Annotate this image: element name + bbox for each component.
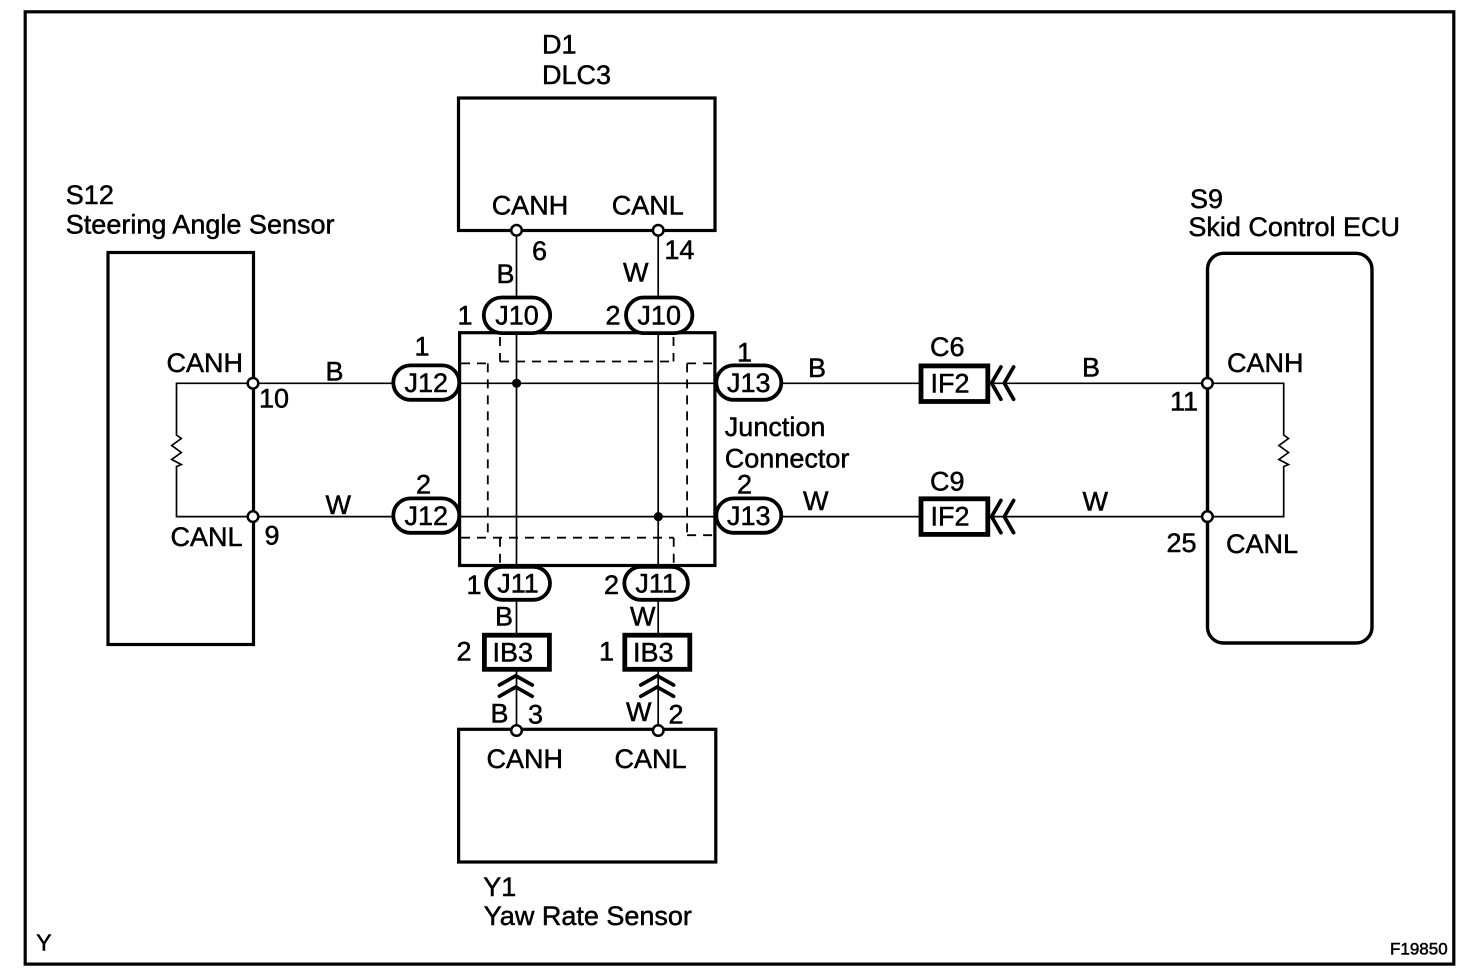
svg-text:W: W: [630, 602, 656, 632]
svg-text:D1: D1: [542, 29, 577, 59]
svg-text:B: B: [326, 356, 344, 386]
junction dot CANL: [654, 512, 663, 521]
connector C9 IF2 box: [921, 499, 988, 535]
terminal DLC3 pin14: [653, 225, 664, 236]
connector C6 IF2 box: [921, 366, 988, 402]
svg-text:Steering Angle Sensor: Steering Angle Sensor: [66, 209, 335, 239]
svg-text:J12: J12: [405, 501, 449, 531]
svg-text:Y1: Y1: [483, 872, 516, 902]
terminal S12 pin10: [248, 378, 259, 389]
S12 terminating resistor: [172, 435, 182, 467]
yaw rate sensor Y1 box: [459, 729, 716, 862]
junction dot CANH: [512, 379, 521, 388]
svg-text:9: 9: [265, 521, 280, 551]
terminal Y1 pin3: [511, 725, 522, 736]
svg-text:IF2: IF2: [931, 369, 970, 399]
svg-text:W: W: [803, 486, 829, 516]
svg-text:W: W: [326, 490, 352, 520]
svg-text:F19850: F19850: [1390, 940, 1448, 959]
svg-text:J13: J13: [727, 368, 771, 398]
svg-text:J13: J13: [727, 501, 771, 531]
svg-text:CANL: CANL: [1226, 529, 1298, 559]
connector pill J11 pin1: [486, 567, 550, 600]
steering angle sensor S12 box: [108, 253, 254, 645]
connector IB3 right chevrons: [641, 676, 674, 697]
svg-text:CANH: CANH: [167, 348, 244, 378]
svg-text:2: 2: [604, 570, 619, 600]
svg-text:J11: J11: [635, 569, 677, 599]
S12 internal wire CANH to resistor: [177, 383, 254, 435]
svg-text:S9: S9: [1190, 184, 1223, 214]
connector IB3 left box (pin2): [484, 635, 549, 669]
svg-text:J11: J11: [497, 569, 539, 599]
connector C6 chevrons: [992, 367, 1014, 399]
connector pill J12 pin2: [393, 498, 459, 532]
connector pill J12 pin1: [393, 365, 459, 399]
svg-text:J10: J10: [637, 301, 681, 331]
svg-text:2: 2: [669, 700, 684, 730]
svg-text:10: 10: [259, 384, 289, 414]
svg-text:C6: C6: [930, 332, 965, 362]
svg-text:B: B: [495, 602, 513, 632]
svg-text:IF2: IF2: [931, 502, 970, 532]
svg-text:J10: J10: [495, 301, 539, 331]
S9 terminating resistor: [1279, 435, 1289, 467]
svg-text:1: 1: [458, 301, 473, 331]
svg-text:J12: J12: [405, 368, 449, 398]
wire B CANH bus S12 pin10 to S9 pin11: [253, 382, 1207, 384]
svg-text:1: 1: [737, 338, 752, 368]
terminal S9 pin25: [1202, 511, 1213, 522]
svg-text:CANH: CANH: [1227, 348, 1304, 378]
connector pill J10 pin2: [626, 298, 692, 334]
junction connector box: [460, 333, 715, 566]
svg-text:DLC3: DLC3: [542, 60, 611, 90]
svg-text:11: 11: [1170, 387, 1198, 417]
svg-text:3: 3: [528, 700, 543, 730]
svg-text:Yaw Rate Sensor: Yaw Rate Sensor: [484, 901, 692, 931]
svg-text:14: 14: [664, 235, 694, 265]
svg-text:IB3: IB3: [493, 638, 534, 668]
wire B DLC3 pin6 down to Y1 pin3: [516, 230, 518, 730]
DLC3 D1 box: [459, 98, 716, 231]
svg-text:Skid Control ECU: Skid Control ECU: [1188, 212, 1400, 242]
svg-text:W: W: [1083, 487, 1109, 517]
connector IB3 right box (pin1): [625, 635, 690, 669]
S9 internal wire resistor to CANL: [1207, 466, 1283, 517]
svg-text:2: 2: [737, 470, 752, 500]
svg-text:CANL: CANL: [615, 744, 687, 774]
svg-text:2: 2: [416, 470, 431, 500]
connector pill J13 pin2: [716, 498, 781, 532]
svg-text:B: B: [1082, 352, 1100, 382]
svg-text:1: 1: [415, 332, 430, 362]
svg-text:CANL: CANL: [171, 522, 243, 552]
svg-text:Junction: Junction: [725, 412, 826, 442]
connector IB3 left chevrons: [499, 676, 532, 697]
svg-text:CANH: CANH: [487, 744, 564, 774]
svg-text:6: 6: [532, 236, 547, 266]
svg-text:2: 2: [606, 301, 621, 331]
S12 internal wire resistor to CANL: [177, 466, 254, 517]
svg-text:CANH: CANH: [492, 190, 569, 220]
terminal DLC3 pin6: [511, 225, 522, 236]
svg-text:W: W: [626, 697, 652, 727]
svg-text:S12: S12: [66, 180, 114, 210]
connector pill J11 pin2: [624, 567, 688, 600]
terminal S9 pin11: [1202, 378, 1213, 389]
terminal Y1 pin2: [653, 725, 664, 736]
terminal S12 pin9: [248, 511, 259, 522]
connector pill J13 pin1: [716, 365, 781, 399]
svg-text:W: W: [623, 257, 649, 287]
svg-text:IB3: IB3: [633, 638, 674, 668]
svg-text:CANL: CANL: [612, 190, 684, 220]
svg-text:Y: Y: [36, 930, 51, 956]
svg-text:B: B: [808, 353, 826, 383]
junction internal dashed bus: [461, 334, 714, 564]
svg-text:C9: C9: [930, 467, 965, 497]
connector C9 chevrons: [992, 501, 1014, 533]
svg-text:1: 1: [467, 570, 482, 600]
svg-text:2: 2: [457, 637, 472, 667]
svg-text:25: 25: [1167, 528, 1197, 558]
connector pill J10 pin1: [484, 298, 550, 334]
wire W CANL bus S12 pin9 to S9 pin25: [253, 516, 1207, 518]
svg-text:B: B: [491, 699, 509, 729]
skid control ECU S9 box: [1208, 253, 1373, 643]
svg-text:1: 1: [599, 637, 614, 667]
wire W DLC3 pin14 down to Y1 pin2: [657, 230, 659, 730]
svg-text:B: B: [497, 259, 515, 289]
S9 internal wire CANH to resistor: [1207, 383, 1283, 435]
